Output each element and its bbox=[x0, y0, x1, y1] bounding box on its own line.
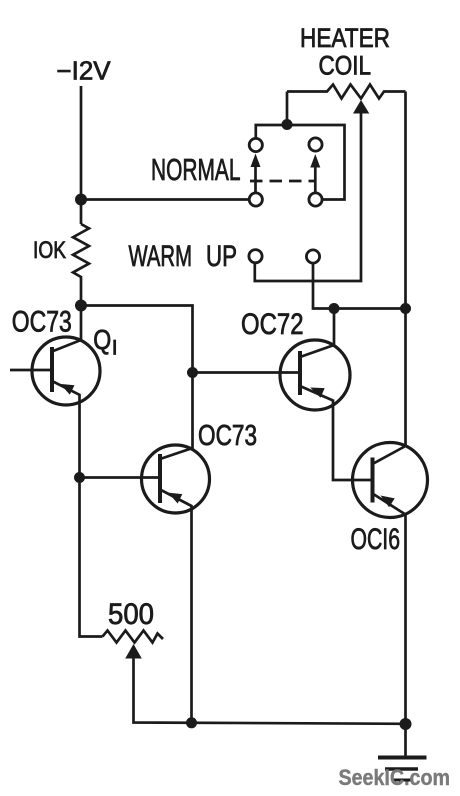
svg-text:HEATER: HEATER bbox=[300, 23, 390, 53]
svg-text:IOK: IOK bbox=[33, 237, 66, 264]
svg-text:COIL: COIL bbox=[319, 51, 372, 81]
svg-text:500: 500 bbox=[108, 598, 154, 631]
svg-text:I: I bbox=[112, 337, 118, 360]
svg-text:SeekIC.com: SeekIC.com bbox=[339, 765, 451, 790]
svg-text:OC72: OC72 bbox=[241, 308, 304, 341]
svg-text:Q: Q bbox=[93, 324, 111, 355]
svg-text:OCI6: OCI6 bbox=[351, 523, 401, 556]
svg-text:NORMAL: NORMAL bbox=[151, 152, 241, 187]
svg-text:OC73: OC73 bbox=[198, 420, 257, 452]
svg-text:UP: UP bbox=[206, 240, 237, 273]
svg-text:WARM: WARM bbox=[129, 240, 193, 273]
svg-text:OC73: OC73 bbox=[12, 306, 72, 339]
svg-text:−I2V: −I2V bbox=[57, 58, 111, 86]
